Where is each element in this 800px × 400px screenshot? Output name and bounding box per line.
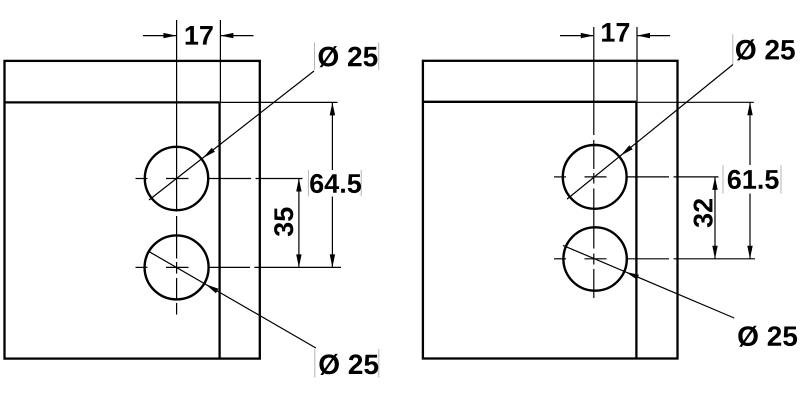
left label Ø25 top — [315, 42, 379, 70]
right horizontal centerline hole B2 — [554, 258, 566, 260]
right leader arrowhead on hole B2 — [626, 272, 639, 280]
left dim text 17 — [186, 26, 213, 45]
right dim line 61.5 — [749, 102, 751, 165]
right vertical centerline / extension line through holes — [593, 27, 595, 135]
left panel inner vertical edge — [218, 102, 220, 358]
left leader arrowhead on hole A2 — [206, 284, 219, 293]
right panel outline — [423, 61, 678, 359]
left dim label 64.5 — [308, 170, 362, 196]
left dim label 35 rotated — [274, 208, 293, 237]
hole A2 bottom circle Ø25 left panel — [145, 235, 209, 299]
right extension line x=637 for 17 dim — [636, 27, 638, 102]
right label Ø25 top — [733, 34, 797, 64]
left dim 17 arrows — [143, 35, 176, 37]
left horizontal centerline hole A1 — [136, 178, 148, 180]
left leader line to hole A1 — [149, 71, 314, 200]
right dim 17 arrows — [560, 35, 593, 37]
left extension line x=220 for 17 dim — [219, 20, 221, 102]
right leader arrowhead on hole B1 — [621, 145, 633, 156]
left horizontal extension line y=102 — [221, 101, 338, 103]
right label Ø25 bottom — [738, 326, 797, 347]
right dim text 17 — [602, 23, 629, 42]
left leader arrowhead on hole A1 — [203, 148, 215, 158]
right horizontal extension line y=102 — [638, 101, 754, 103]
left panel outline — [5, 61, 260, 359]
left leader line to hole A2 — [149, 251, 316, 348]
right dim label 32 rotated — [694, 199, 713, 227]
left vertical centerline / extension line through holes — [176, 20, 178, 212]
hole B2 bottom circle Ø25 right panel — [563, 227, 626, 290]
right horizontal centerline hole B1 — [554, 176, 566, 178]
right dim label 61.5 — [723, 165, 782, 194]
left panel top rail line — [5, 101, 220, 103]
hole A1 top circle Ø25 left panel — [145, 147, 208, 210]
right leader line to hole B1 — [567, 65, 733, 200]
right panel inner vertical edge — [635, 102, 637, 359]
left horizontal centerline hole A2 — [136, 266, 148, 268]
right panel top rail line — [423, 101, 637, 103]
hole B1 top circle Ø25 right panel — [563, 145, 627, 209]
right dim line 32 — [714, 177, 716, 259]
left dim line 35 — [298, 179, 300, 268]
left label Ø25 bottom — [315, 349, 379, 378]
left dim line 64.5 — [331, 102, 333, 170]
right leader line to hole B2 — [563, 245, 734, 318]
